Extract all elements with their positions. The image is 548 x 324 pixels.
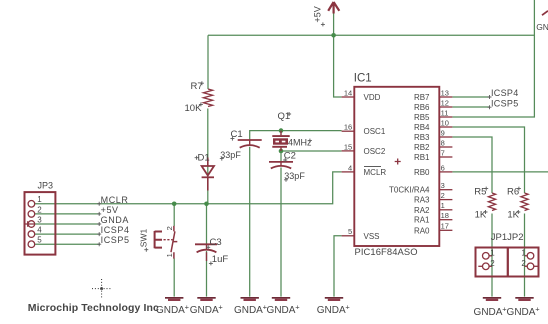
svg-text:1uF: 1uF <box>212 254 229 265</box>
svg-text:JP3: JP3 <box>38 181 54 191</box>
connector JP3 <box>25 192 56 255</box>
op IC1 box <box>354 87 439 246</box>
svg-text:3: 3 <box>441 181 445 190</box>
IC1 pin 4 (MCLR) <box>342 171 355 173</box>
svg-text:1K: 1K <box>507 210 519 221</box>
svg-text:GNDA: GNDA <box>507 307 536 318</box>
ground GNDA (VSS) <box>325 297 343 299</box>
svg-text:2: 2 <box>521 259 526 268</box>
IC1 pin 5 (VSS) <box>342 235 355 237</box>
wire R5 bottom through JP1 to ground <box>491 214 493 297</box>
svg-text:ICSP4: ICSP4 <box>101 225 130 235</box>
connector JP1 box <box>476 248 508 277</box>
diode D1 <box>207 158 209 167</box>
wire +5V supply to VDD pin 14 <box>334 11 342 98</box>
JP3 pin 1 <box>28 201 35 208</box>
IC1 pin 9 (RB3) <box>439 136 452 138</box>
wire RB3 pin 9 to R5 <box>452 137 492 193</box>
IC1 pin 17 (RA0) <box>439 229 452 231</box>
svg-text:VSS: VSS <box>364 232 380 241</box>
MCLR overline <box>364 166 381 168</box>
IC1 pin 14 (VDD) <box>342 96 355 98</box>
svg-text:ICSP5: ICSP5 <box>491 98 519 108</box>
IC1 pin 8 (RB2) <box>439 146 452 148</box>
JP3 pin 4 <box>28 231 35 238</box>
svg-text:ICSP4: ICSP4 <box>491 88 519 98</box>
ground GNDA (C2) <box>272 297 290 299</box>
svg-text:5: 5 <box>348 227 352 236</box>
svg-text:2: 2 <box>165 226 174 230</box>
IC1 pin 7 (RB1) <box>439 156 452 158</box>
wire ICSP5 stub from JP3 pin 5 <box>35 243 100 245</box>
JP1 pin 1 <box>483 253 490 260</box>
svg-text:RB5: RB5 <box>414 113 430 122</box>
IC1 pin 1 (RA2) <box>439 209 452 211</box>
svg-text:GNDA: GNDA <box>267 305 296 316</box>
svg-text:MCLR: MCLR <box>101 195 129 205</box>
IC1 pin 12 (RB6) <box>439 106 452 108</box>
wire +5V rail <box>208 34 534 36</box>
svg-text:GND: GND <box>536 22 548 32</box>
ground GNDA (SW1) <box>165 297 183 299</box>
JP2 pin 1 <box>527 253 534 260</box>
svg-text:4MHz: 4MHz <box>288 138 312 148</box>
svg-text:13: 13 <box>441 88 449 97</box>
switch SW1 <box>155 231 162 248</box>
IC1 pin 16 (OSC1) <box>342 130 355 132</box>
capacitor C1 <box>238 139 262 141</box>
JP3 pin 3 <box>28 221 35 228</box>
ground GNDA (C3) <box>197 297 215 299</box>
wire RB5 pin 11 to GND net at top right <box>452 0 534 117</box>
capacitor C3 <box>195 243 217 245</box>
svg-text:C3: C3 <box>210 237 222 248</box>
svg-text:+5V: +5V <box>313 6 323 22</box>
svg-text:2: 2 <box>441 191 445 200</box>
origin cross marker <box>92 279 111 298</box>
svg-text:RB7: RB7 <box>414 93 430 102</box>
connector JP2 box <box>508 248 539 277</box>
svg-text:RB3: RB3 <box>414 133 430 142</box>
IC1 pin 15 (OSC2) <box>342 150 355 152</box>
ground GNDA (C1) <box>241 297 259 299</box>
resistor R7 <box>203 89 212 107</box>
svg-text:GNDA: GNDA <box>156 305 185 316</box>
svg-text:14: 14 <box>344 88 352 97</box>
JP3 pin 2 <box>28 211 35 218</box>
svg-text:RB1: RB1 <box>414 153 430 162</box>
svg-text:1: 1 <box>165 253 174 257</box>
svg-text:6: 6 <box>441 163 445 172</box>
svg-text:4: 4 <box>37 226 42 235</box>
svg-text:10: 10 <box>441 118 449 127</box>
svg-text:2: 2 <box>37 205 42 214</box>
wire RB0 pin 6 to right edge <box>452 171 548 173</box>
svg-text:Microchip Technology Inc: Microchip Technology Inc <box>28 302 159 314</box>
+5V supply arrow <box>328 2 339 14</box>
ground GNDA (JP2) <box>515 297 533 299</box>
svg-text:OSC2: OSC2 <box>364 147 386 156</box>
IC1 pin 18 (RA1) <box>439 219 452 221</box>
IC1 pin 6 (RB0) <box>439 171 452 173</box>
svg-text:3: 3 <box>37 215 42 224</box>
ground GNDA (JP1) <box>483 297 501 299</box>
IC1 pin 11 (RB5) <box>439 116 452 118</box>
node OSC2/crystal junction <box>279 149 284 154</box>
svg-text:IC1: IC1 <box>354 72 372 84</box>
svg-text:1: 1 <box>521 248 526 257</box>
svg-text:JP1JP2: JP1JP2 <box>491 232 524 243</box>
svg-text:D1: D1 <box>198 153 210 164</box>
capacitor C2 <box>269 161 293 163</box>
wire ICSP4 stub from JP3 pin 4 <box>35 233 100 235</box>
svg-text:RB2: RB2 <box>414 143 430 152</box>
JP2 pin 2 with origin cross <box>525 265 538 267</box>
svg-text:+5V: +5V <box>101 205 119 215</box>
svg-text:+: + <box>535 304 540 313</box>
JP3 pin 5 <box>28 241 35 248</box>
svg-text:1: 1 <box>490 248 495 257</box>
wire C3 top <box>206 204 208 244</box>
svg-text:+: + <box>295 303 300 312</box>
svg-text:VDD: VDD <box>364 93 381 102</box>
svg-text:18: 18 <box>441 211 449 220</box>
svg-text:16: 16 <box>344 123 352 132</box>
svg-text:9: 9 <box>441 128 445 137</box>
svg-text:11: 11 <box>441 108 449 117</box>
IC1 pin 3 (T0CKI/RA4) <box>439 189 452 191</box>
svg-text:GNDA: GNDA <box>190 305 219 316</box>
svg-text:17: 17 <box>441 222 449 231</box>
wire crystal bottom / C2 top <box>280 151 282 162</box>
node MCLR/SW1 junction <box>172 202 177 207</box>
svg-text:15: 15 <box>344 142 352 151</box>
crystal Q1 <box>280 131 282 151</box>
wire RB7 pin 13 to ICSP4 label <box>452 96 489 98</box>
node OSC1/crystal junction <box>279 128 284 133</box>
wire VSS pin 5 to ground <box>334 236 342 297</box>
clipped symbol at top right <box>542 11 548 15</box>
svg-text:GNDA: GNDA <box>234 305 263 316</box>
svg-text:GNDA: GNDA <box>101 215 129 225</box>
node +5V rail junction <box>331 33 336 38</box>
svg-text:SW1: SW1 <box>138 229 148 248</box>
svg-text:RA3: RA3 <box>414 196 430 205</box>
JP1 pin 2 with origin cross <box>478 265 492 267</box>
svg-text:4: 4 <box>348 163 352 172</box>
svg-text:R7: R7 <box>191 81 203 92</box>
wire MCLR net horizontal to IC pin 4 <box>35 172 342 204</box>
svg-text:1: 1 <box>441 201 445 210</box>
IC1 origin cross <box>395 159 401 165</box>
svg-text:2: 2 <box>490 259 495 268</box>
svg-text:1K: 1K <box>475 210 487 221</box>
IC1 pin 2 (RA3) <box>439 199 452 201</box>
svg-text:MCLR: MCLR <box>364 168 387 177</box>
svg-text:PIC16F84ASO: PIC16F84ASO <box>355 246 418 257</box>
wire RB6 pin 12 to ICSP5 label <box>452 106 489 108</box>
svg-text:RA2: RA2 <box>414 206 430 215</box>
wire OSC1 net <box>250 131 342 140</box>
wire GNDA stub from JP3 pin 3 <box>35 223 100 225</box>
wire +5V stub from JP3 pin 2 <box>35 213 100 215</box>
svg-text:7: 7 <box>441 148 445 157</box>
svg-text:1: 1 <box>37 195 42 204</box>
svg-text:RB0: RB0 <box>414 168 430 177</box>
svg-text:RB6: RB6 <box>414 103 430 112</box>
svg-text:GNDA: GNDA <box>317 305 346 316</box>
node MCLR/C3 junction <box>204 202 209 207</box>
wire OSC2 net <box>281 150 342 152</box>
wire R7 top <box>207 35 209 89</box>
wire R6 bottom through JP2 to ground <box>524 214 526 297</box>
svg-text:+: + <box>345 303 350 312</box>
svg-text:+: + <box>218 303 223 312</box>
wire R7 bottom to D1 and MCLR net <box>207 109 209 204</box>
wire SW1 bottom to ground <box>173 259 175 297</box>
IC1 pin 13 (RB7) <box>439 96 452 98</box>
IC1 pin 10 (RB4) <box>439 126 452 128</box>
svg-text:RA1: RA1 <box>414 216 430 225</box>
svg-text:T0CKI/RA4: T0CKI/RA4 <box>389 186 430 195</box>
svg-text:8: 8 <box>441 138 445 147</box>
JP3 origin cross on pin 3 <box>25 221 34 226</box>
svg-text:GNDA: GNDA <box>474 307 503 318</box>
resistor R6 <box>521 193 528 211</box>
svg-text:5: 5 <box>37 236 42 245</box>
svg-text:RA0: RA0 <box>414 226 430 235</box>
svg-text:ICSP5: ICSP5 <box>101 235 130 245</box>
wire RB4 pin 10 to R6 <box>452 127 524 193</box>
wire C1 bottom to ground <box>249 147 251 297</box>
svg-text:RB4: RB4 <box>414 123 430 132</box>
resistor R5 <box>488 193 495 211</box>
wire C3 bottom to ground <box>206 251 208 297</box>
wire C2 bottom to ground <box>280 168 282 297</box>
wire SW1 top <box>173 204 175 226</box>
svg-text:OSC1: OSC1 <box>364 127 386 136</box>
svg-text:Q1: Q1 <box>278 111 291 122</box>
svg-text:12: 12 <box>441 98 449 107</box>
